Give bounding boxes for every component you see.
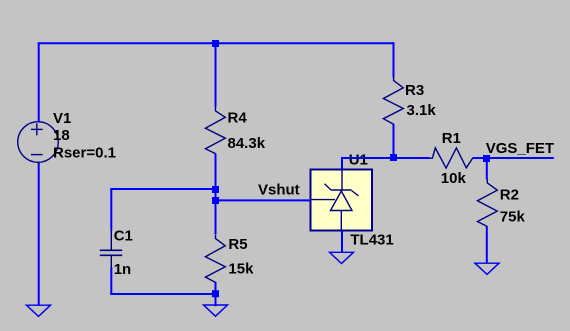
wire Vshut net to U1 ref pin [216, 199, 311, 201]
wire bottom horizontal C1 to R5 junction [110, 293, 215, 295]
op-amp U1 (TL431 macro body) [310, 169, 372, 231]
svg-text:15k: 15k [228, 260, 254, 277]
wire VGS_FET net stub [487, 157, 554, 159]
wire left column lower (V1 minus to ground) [38, 162, 40, 306]
resistor R3 [383, 77, 403, 125]
junction node Vshut / R5 [212, 197, 219, 204]
svg-text:3.1k: 3.1k [407, 102, 437, 119]
resistor R2 [477, 179, 497, 226]
voltage source V1 [18, 122, 59, 163]
svg-text:R2: R2 [500, 186, 519, 203]
wire R1 right lead [472, 157, 486, 159]
ground (R2) [475, 263, 499, 274]
wire U1 cathode horizontal to R3 node [342, 157, 394, 159]
junction node bottom R5 / C1 / ground [212, 290, 219, 297]
svg-text:R5: R5 [228, 236, 247, 253]
svg-text:1n: 1n [114, 261, 132, 278]
svg-text:R1: R1 [442, 130, 461, 147]
svg-text:V1: V1 [53, 110, 71, 127]
wire C1 top horizontal [110, 188, 215, 190]
junction node top rail / R4 [212, 40, 219, 47]
svg-text:18: 18 [53, 127, 70, 144]
svg-text:R3: R3 [405, 82, 424, 99]
resistor R5 [205, 235, 225, 283]
wire top rail [38, 42, 395, 44]
junction node R4 / C1 [212, 186, 219, 193]
wire R2 top lead [486, 158, 488, 180]
junction node R3 / R1 / U1 [390, 154, 397, 161]
ground (V1) [27, 305, 51, 316]
wire left column upper (rail to V1 plus) [38, 42, 40, 122]
svg-text:U1: U1 [349, 152, 368, 169]
wire R3 bottom lead [393, 124, 395, 158]
wire R4 bottom lead through junctions to R5 top [215, 154, 217, 235]
resistor R4 [205, 107, 225, 154]
wire R4 top lead [215, 43, 217, 106]
ground (U1 anode) [330, 252, 354, 263]
svg-text:R4: R4 [228, 110, 248, 127]
wire R3 top lead [393, 42, 395, 77]
svg-text:TL431: TL431 [350, 231, 393, 248]
capacitor C1 [100, 230, 122, 268]
wire C1 bottom vertical lead [110, 268, 112, 296]
svg-text:75k: 75k [500, 209, 526, 226]
svg-text:10k: 10k [441, 170, 467, 187]
svg-text:C1: C1 [114, 227, 133, 244]
wire C1 top vertical lead [110, 188, 112, 231]
ground (R5/C1 bottom) [204, 305, 228, 316]
svg-text:VGS_FET: VGS_FET [486, 140, 554, 157]
wire R1 left lead [394, 157, 430, 159]
svg-text:Vshut: Vshut [258, 182, 300, 199]
svg-text:84.3k: 84.3k [228, 135, 266, 152]
svg-text:Rser=0.1: Rser=0.1 [53, 145, 116, 162]
wire R5 bottom lead to ground junction [215, 282, 217, 306]
wire R2 bottom lead to ground [486, 226, 488, 263]
junction node R1 / R2 / VGS_FET [483, 155, 490, 162]
wire U1 anode to ground [341, 231, 343, 253]
resistor R1 [429, 148, 472, 168]
wire U1 cathode vertical into box [341, 157, 343, 170]
